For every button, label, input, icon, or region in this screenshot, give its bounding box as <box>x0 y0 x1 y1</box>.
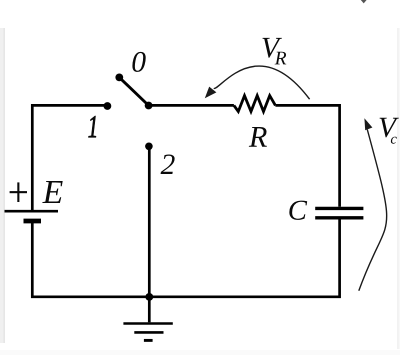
voltage arrow V_c beside capacitor <box>359 118 387 290</box>
resistor R <box>234 96 276 112</box>
label V_c <box>380 118 399 144</box>
wire: bottom wire right part and right wire lower segment <box>149 220 339 297</box>
switch arm to position 0 <box>119 77 148 105</box>
switch contact 2 dot <box>145 143 153 151</box>
voltage arrow V_R over resistor <box>205 66 310 99</box>
label 0 <box>132 52 145 72</box>
wire: left wire lower segment, bottom wire left part <box>32 223 149 297</box>
junction node at bottom wire <box>145 293 153 301</box>
ground <box>123 324 172 341</box>
battery E <box>5 211 59 221</box>
switch pivot (common pole on top wire) <box>145 102 153 110</box>
wire top-left: top wire left segment and left wire upper segment <box>32 105 107 210</box>
label 2 <box>161 155 175 174</box>
switch contact 1 (node 1 dot at end of left top wire) <box>104 102 112 110</box>
label R <box>249 127 267 147</box>
switch contact 0 dot <box>115 74 123 82</box>
label E <box>42 181 62 203</box>
wire: top wire middle segment from switch pivot to resistor <box>149 104 234 107</box>
label V_R <box>262 38 286 64</box>
label C <box>289 201 307 220</box>
capacitor C <box>315 208 363 217</box>
battery plus sign <box>10 182 27 202</box>
label 1 <box>88 116 95 137</box>
wire: right wire upper segment and top wire right part <box>275 105 339 206</box>
wire: ground stem <box>148 297 151 322</box>
wire: middle vertical wire from contact 2 to bottom wire <box>148 146 151 296</box>
